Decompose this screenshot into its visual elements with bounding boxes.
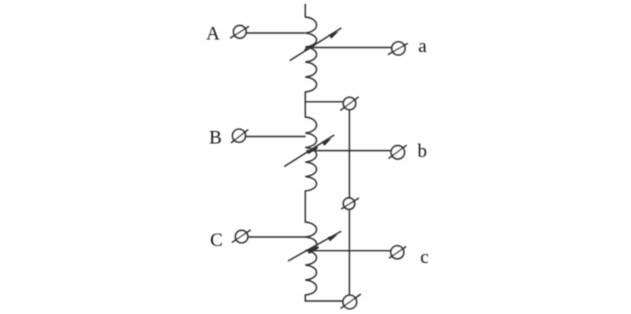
- terminal A (circle with slash): [231, 26, 249, 39]
- terminal B (circle with slash): [232, 129, 248, 142]
- wire: right vertical bus: [348, 104, 350, 301]
- wire: terminal B to winding: [246, 136, 306, 138]
- wire: terminal A to winding: [247, 32, 305, 34]
- bus terminal bottom (circle with slash): [341, 294, 360, 308]
- bus terminal top (circle with slash): [341, 97, 359, 110]
- svg-text:b: b: [418, 141, 428, 162]
- wiper arrow phase B: [285, 135, 334, 166]
- wiper arrow phase A: [290, 28, 341, 60]
- svg-text:C: C: [210, 230, 223, 251]
- wire: wiper tap to terminal b (crosses bus): [307, 150, 391, 152]
- terminal b (circle with slash): [389, 145, 406, 159]
- svg-text:c: c: [420, 247, 428, 268]
- terminal c (circle with slash): [390, 246, 406, 259]
- wiper arrow phase C: [289, 232, 341, 261]
- winding L1 (three-phase tapped autotransformer winding, phases A/B/C in series): [305, 5, 316, 302]
- bus terminal middle (circle with slash): [342, 198, 359, 209]
- wire: wiper tap to terminal a: [307, 47, 392, 49]
- wire: wiper tap to terminal c (crosses bus): [307, 250, 391, 252]
- wire: winding top junction to bus top terminal: [305, 101, 346, 103]
- svg-text:B: B: [209, 128, 222, 149]
- terminal C (circle with slash): [232, 230, 250, 243]
- terminal a (circle with slash): [388, 42, 407, 55]
- wire: winding bottom to bus bottom terminal: [305, 300, 349, 302]
- svg-text:a: a: [418, 36, 427, 57]
- wire: terminal C to winding: [248, 236, 307, 238]
- svg-text:A: A: [206, 24, 220, 45]
